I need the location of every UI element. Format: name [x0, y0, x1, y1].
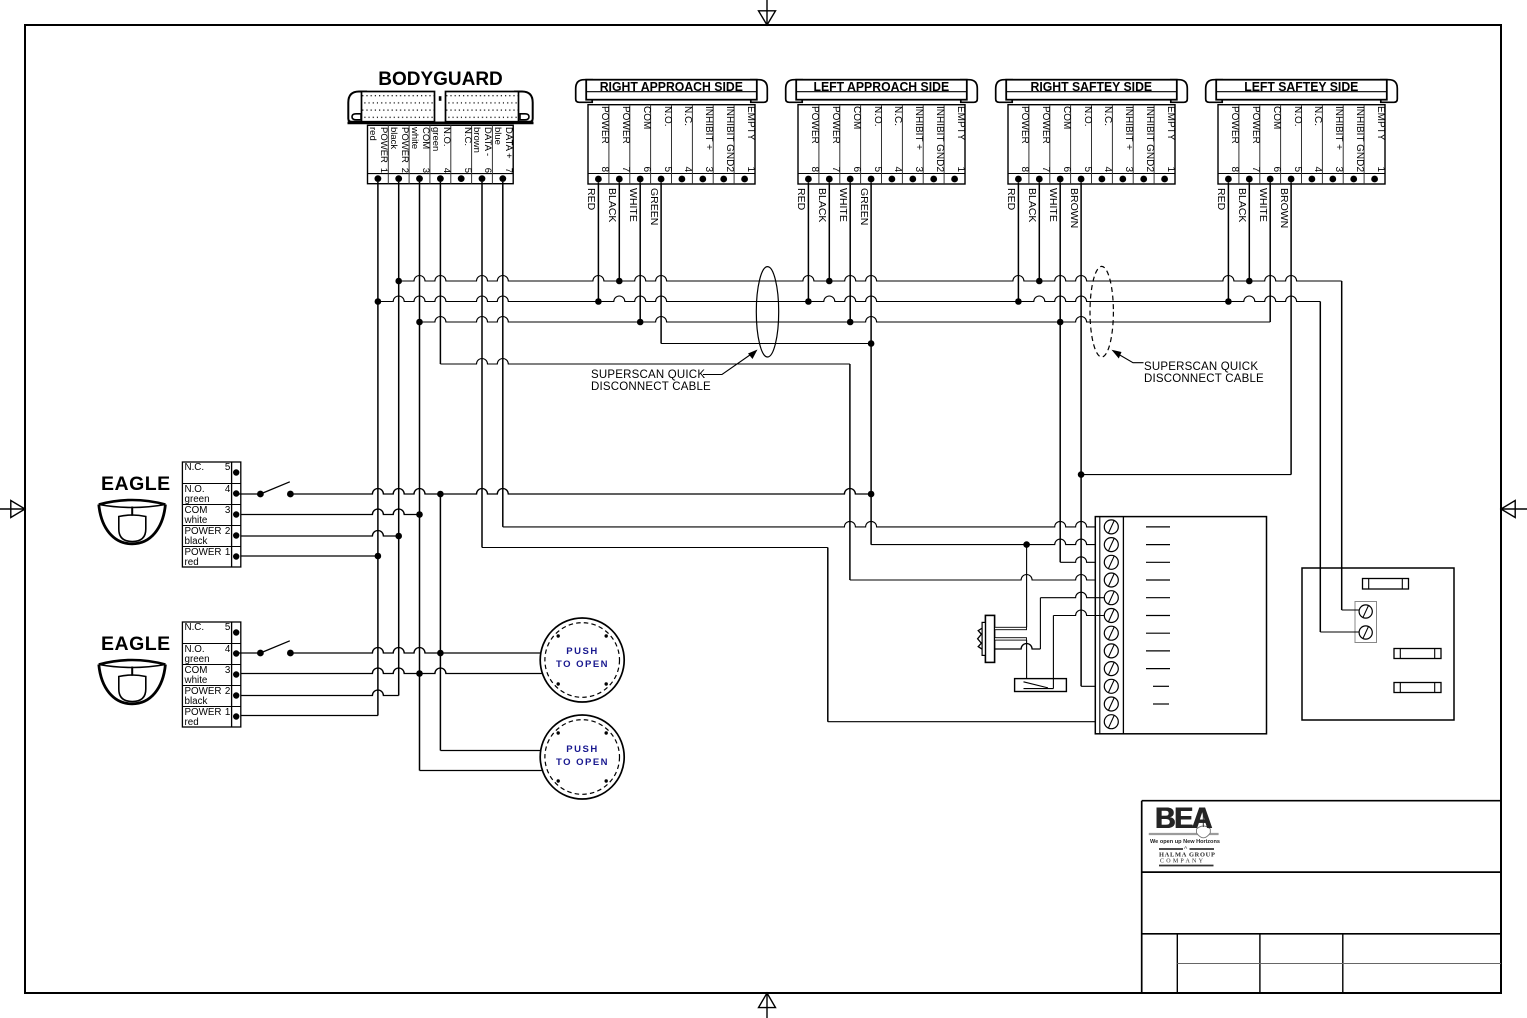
wire: LAS WHITE drop [849, 183, 851, 323]
EAGLE 1 N.O. switch wire [290, 489, 871, 495]
EAGLE 1 POWER1 wire [236, 555, 378, 557]
bus C (white com) [420, 317, 1271, 323]
bodyguard green drop to screw 4 [849, 364, 851, 580]
bus B drop to power box [1319, 302, 1321, 633]
wire: RSS BLACK drop [1038, 183, 1040, 282]
terminal dots 8..1 LEFT SAFTEY SIDE [1225, 176, 1232, 183]
DATA- wire to screw 12 [828, 721, 1105, 723]
power supply box [1302, 568, 1454, 720]
controller box [1095, 517, 1266, 734]
wire: RSS WHITE drop (to screw 3) [1059, 183, 1061, 563]
fuse 2 [1394, 649, 1441, 659]
green net wire to screw 2 [871, 539, 1104, 545]
connector header LEFT SAFTEY SIDE [1206, 80, 1223, 103]
black wire into terminal [1342, 609, 1360, 611]
connector header LEFT APPROACH SIDE [786, 80, 803, 103]
EAGLE 2 COM wire to push button 1 [236, 668, 542, 673]
power terminals [1355, 602, 1377, 643]
EAGLE sensor EAGLE 1 [99, 500, 166, 544]
terminal dots 8..1 RIGHT SAFTEY SIDE [1015, 176, 1022, 183]
wire: LAS RED drop [807, 183, 809, 302]
junction dots [395, 278, 402, 285]
wire: LSS WHITE drop [1269, 183, 1271, 323]
bottom centre alignment arrow [759, 993, 776, 1018]
connector terminal block LEFT APPROACH SIDE [798, 105, 965, 184]
push to open button 1 [540, 618, 624, 702]
terminal strip screws 1-12 [1104, 520, 1118, 534]
right centre alignment arrow [1501, 501, 1527, 518]
red wire into terminal [1320, 631, 1359, 633]
wire: LAS BLACK drop [828, 183, 830, 282]
leader arrow 2 [1116, 353, 1144, 363]
EAGLE 1 POWER2 wire [236, 531, 399, 536]
EAGLE sensor EAGLE 2 [99, 660, 166, 704]
wire: RAS GREEN drop [660, 183, 662, 344]
wire: RAS BLACK drop [618, 183, 620, 282]
terminal dots 8..1 RIGHT APPROACH SIDE [595, 176, 602, 183]
wire: BODYGUARD POWER1 red vertical [377, 182, 379, 716]
DATA+ wire to screw 1 [503, 521, 1105, 526]
motor lead3 riser to screw 5 [1039, 598, 1041, 649]
green wire to screw 4 [850, 575, 1105, 580]
BODYGUARD terminal dots 1-7 [375, 175, 382, 182]
wire: BODYGUARD N.O. green vertical [439, 182, 441, 364]
switch contact at y=653 [236, 652, 260, 654]
push to open button 2 [540, 715, 624, 799]
superscan quick disconnect cable loop 2 [1090, 266, 1113, 357]
BODYGUARD sensor bar U1 [348, 92, 366, 123]
wire: RSS RED drop [1017, 183, 1019, 302]
DATA- wire across [482, 547, 828, 549]
wire: BODYGUARD COM white vertical [419, 182, 421, 771]
fuse 1 [1363, 579, 1409, 590]
motor mid lead vertical to flasher [1026, 640, 1028, 683]
terminal dots 8..1 LEFT APPROACH SIDE [805, 176, 812, 183]
gong/motor M1 [985, 615, 994, 662]
connector header RIGHT SAFTEY SIDE [996, 80, 1013, 103]
connector header RIGHT APPROACH SIDE [576, 80, 593, 103]
fuse 3 [1394, 683, 1441, 693]
connector terminal block RIGHT APPROACH SIDE [588, 105, 755, 184]
bus D1 (green approach) [661, 343, 871, 345]
wire: BODYGUARD DATA+ vertical [502, 182, 504, 527]
connector terminal block LEFT SAFTEY SIDE [1218, 105, 1385, 184]
BEA logo [1149, 833, 1219, 835]
wire to screw 5 [1040, 592, 1104, 598]
motor lead 3 with hop [995, 644, 1041, 650]
title block [1142, 800, 1501, 802]
wire: LSS BROWN drop (to brown link) [1290, 183, 1292, 475]
BODYGUARD terminal block [368, 125, 514, 183]
flasher F1 [1015, 679, 1067, 692]
white wire into screw 3 [1060, 557, 1104, 563]
motor lead 1 [995, 627, 1027, 629]
left centre alignment arrow [0, 501, 25, 518]
wire: BODYGUARD DATA- vertical [481, 182, 483, 548]
wire: green riser from EAGLE1 switch junction to push buttons [439, 494, 441, 751]
flasher riser to screw 6 [1052, 616, 1054, 689]
brown link RSS-LSS [1081, 474, 1291, 476]
green wire to push button 2 [440, 750, 541, 752]
bus A drop to power box [1341, 281, 1343, 610]
wire: RAS RED drop [597, 183, 599, 302]
white wire to push button 2 [420, 770, 542, 772]
connector terminal block RIGHT SAFTEY SIDE [1008, 105, 1175, 184]
leader arrow 1 [703, 353, 754, 375]
DATA- drop [827, 548, 829, 722]
bus A (black power) [399, 276, 1342, 282]
EAGLE 2 POWER1 wire [236, 715, 378, 717]
internal connection dashes [1146, 526, 1170, 528]
EAGLE 2 N.O. switch wire to push button 1 [290, 648, 541, 653]
EAGLE 2 POWER2 wire [236, 690, 399, 695]
wire: LSS BLACK drop [1248, 183, 1250, 282]
top centre alignment arrow [759, 0, 776, 25]
wire: BODYGUARD POWER2 black vertical [398, 182, 400, 696]
motor top lead vertical to DATA- junction [1026, 545, 1028, 628]
superscan quick disconnect cable loop 1 [756, 267, 778, 357]
wire to screw 6 [1053, 610, 1104, 616]
brown wire into screw 10 [1081, 685, 1104, 687]
wire: RSS BROWN drop (to screw 10) [1080, 183, 1082, 687]
wire: LAS GREEN drop (to green net) [870, 183, 872, 545]
bus D2 (bodyguard green) [440, 359, 850, 364]
EAGLE 1 COM wire [236, 509, 419, 515]
wire: LSS RED drop [1227, 183, 1229, 302]
motor lead 2 [995, 638, 1027, 640]
wire: RAS WHITE drop [639, 183, 641, 323]
bus B (red power) [378, 296, 1320, 302]
switch contact at y=494 [236, 493, 260, 495]
